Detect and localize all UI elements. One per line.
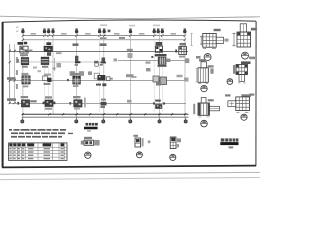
- bottom detail I: [170, 137, 181, 149]
- detail F square: [198, 103, 209, 115]
- table frame: [9, 143, 67, 161]
- detail E square: [236, 97, 250, 111]
- dimension number smudges row1: [31, 33, 177, 35]
- bottom detail H: [135, 138, 144, 147]
- detail F left marks: [193, 104, 195, 114]
- label x146: [146, 62, 151, 64]
- detail F section bubble: [201, 120, 208, 127]
- detail E bottom ticks: [236, 111, 248, 113]
- axis crossing marks x75: [73, 43, 81, 65]
- detail D left marks: [233, 65, 235, 74]
- detail D stub ticks: [238, 82, 245, 84]
- axis text x55: [53, 58, 62, 71]
- detail B stub top: [240, 24, 246, 32]
- bottom detail G label: [84, 137, 92, 139]
- detail C bottom ticks: [198, 83, 208, 85]
- detail A bottom ticks: [203, 47, 216, 49]
- notes line 3: [11, 136, 62, 138]
- text x129 row4: [127, 100, 132, 103]
- column cluster R1C3: [155, 42, 167, 56]
- plan title scale: [87, 130, 91, 131]
- bottom detail H bubble: [136, 152, 142, 158]
- left dimension line x=9.7: [9, 44, 11, 104]
- bottom-right title underline bar: [220, 142, 238, 145]
- detail E section bubble: [241, 114, 247, 120]
- frame bottom border: [2, 166, 256, 168]
- detail B bubble side text: [249, 57, 255, 60]
- detail D bottom text: [241, 94, 251, 97]
- marks between row2 clusters: [33, 67, 41, 73]
- wide cluster x158-166 row2: [158, 57, 171, 67]
- detail A square: [203, 33, 216, 47]
- plan title line2: [84, 127, 98, 130]
- top dimension line 2: [23, 39, 185, 41]
- column cluster R1C1: [18, 42, 33, 56]
- plan title line1: [86, 123, 98, 126]
- dimension ticks line1: [22, 35, 186, 41]
- cluster x152-166 row3: [153, 76, 167, 86]
- notes line 2: [11, 132, 73, 134]
- detail D text top: [241, 61, 251, 64]
- detail A stub dim text: [225, 39, 229, 42]
- bottom-right scale text: [229, 146, 234, 148]
- beam mid text x133: [132, 76, 137, 78]
- detail B section bubble: [242, 52, 249, 59]
- marks x178 row3: [177, 75, 183, 77]
- detail F bottom ticks: [198, 116, 209, 118]
- top grid bubbles: [22, 30, 187, 33]
- bottom-right title text: [221, 138, 239, 141]
- left rotated dim text smudges: [16, 57, 18, 89]
- detail C text above: [199, 59, 206, 61]
- bottom detail G bubble: [85, 152, 91, 158]
- left dim ticks: [9, 50, 16, 104]
- crossing cluster x104 row4: [101, 99, 107, 108]
- bottom grid bubble stems: [22, 117, 185, 120]
- column cluster R4C3: [153, 100, 165, 109]
- column cluster R3C4: [94, 73, 113, 86]
- dimension number smudges row2: [100, 37, 125, 39]
- small cluster x97 row2: [94, 61, 103, 66]
- sheet edge top gray line: [0, 16, 260, 19]
- detail E stub left: [228, 101, 236, 107]
- bottom chord line a: [22, 113, 189, 115]
- beam label x56: [56, 52, 62, 54]
- tiny text x148: [148, 140, 151, 143]
- column cluster R3C1: [21, 73, 30, 87]
- notes line 1: [9, 129, 66, 131]
- detail D square: [236, 65, 248, 75]
- column cluster R2C1: [17, 58, 29, 68]
- beam line row2 left: [16, 61, 105, 63]
- detail D stub bottom: [239, 75, 245, 82]
- frame top border: [2, 20, 256, 22]
- detail A stub: [216, 37, 223, 43]
- detail A outer dim line: [190, 34, 192, 46]
- detail A dim text: [214, 29, 221, 31]
- detail C section bubble: [201, 85, 207, 91]
- vertical grid lines faint: [45, 33, 163, 112]
- detail B square: [237, 32, 251, 47]
- table cell smudges: [9, 148, 64, 159]
- bottom detail H label: [133, 135, 138, 137]
- detail C right marks: [210, 68, 213, 73]
- detail A left label: [196, 56, 201, 59]
- column cluster R4C1b: [43, 96, 56, 109]
- detail A left ticks: [200, 36, 202, 46]
- detail C square: [198, 68, 208, 83]
- bottom grid bubbles: [21, 120, 188, 123]
- column cluster R4C2: [69, 96, 85, 110]
- column cluster R3C3: [67, 73, 80, 87]
- beam line row1: [10, 51, 188, 53]
- axis crossing marks x101: [100, 43, 107, 63]
- bottom dim ticks: [22, 113, 186, 115]
- detail A section bubble: [204, 54, 211, 61]
- row2b small marks: [70, 68, 151, 77]
- left axis label row4: [7, 98, 16, 101]
- bottom detail I bubble: [170, 154, 176, 160]
- detail F stub right: [209, 106, 219, 111]
- detail C stub top: [201, 62, 207, 68]
- junction dot x151: [151, 56, 153, 58]
- detail B dim text: [251, 28, 257, 31]
- marks x186 row2: [185, 58, 190, 63]
- tiny text x115 row2: [114, 58, 118, 61]
- top dimension line 1: [23, 35, 185, 37]
- detail D section bubble left: [227, 79, 233, 85]
- bottom detail G: [81, 140, 100, 146]
- bubble number smudges: [22, 28, 186, 32]
- detail F stub top: [201, 98, 206, 103]
- column cluster R3C2: [43, 74, 52, 85]
- detail C outer dim line: [195, 69, 197, 83]
- table header text: [9, 143, 64, 146]
- bottom sheet gray line 1: [0, 172, 260, 174]
- bracket marks x129: [127, 49, 133, 58]
- left dimension line x=14.7: [14, 44, 16, 104]
- beam line row3: [10, 80, 188, 82]
- vertical grid lines main: [23, 33, 185, 119]
- frame right border: [255, 21, 257, 166]
- bottom sheet gray line 2: [0, 177, 260, 179]
- beam line row4: [10, 102, 186, 104]
- column cluster R1C2: [44, 42, 52, 56]
- beam line row2 right: [118, 59, 188, 61]
- bottom chord line b: [22, 116, 189, 118]
- column cluster R2C2: [41, 57, 49, 68]
- detail B left ticks: [232, 33, 235, 47]
- detail F text above: [208, 99, 214, 101]
- column cluster R1C4: [175, 43, 186, 58]
- left axis label row3: [7, 77, 16, 80]
- faint text above axis row: [16, 24, 160, 32]
- detail E texts: [225, 94, 231, 96]
- column cluster R4C1: [17, 96, 36, 107]
- frame left border: [2, 22, 4, 168]
